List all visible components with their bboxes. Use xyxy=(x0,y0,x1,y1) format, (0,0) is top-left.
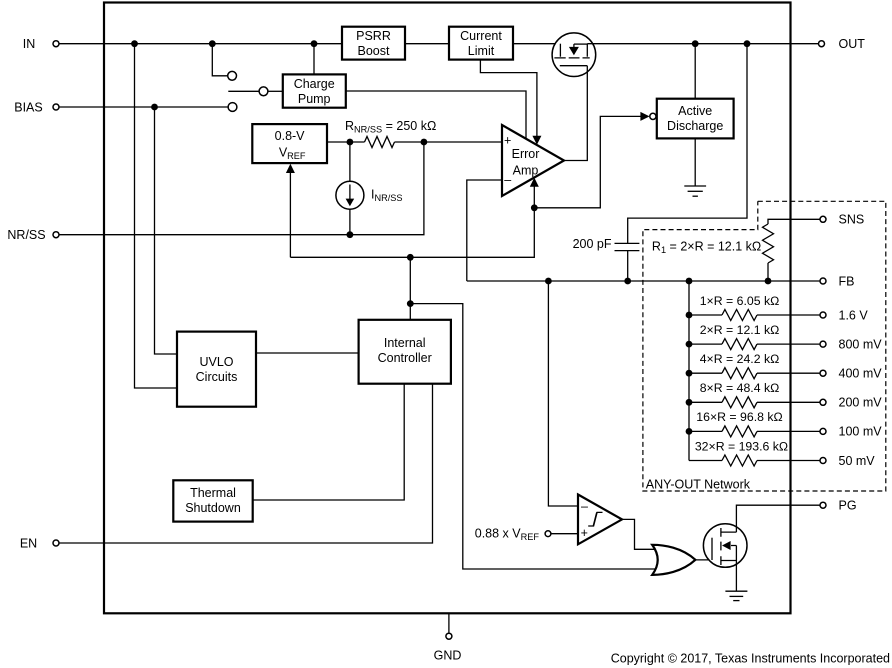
node bus tap 1.6V xyxy=(686,312,693,319)
wire internal enable net horizontal xyxy=(290,208,534,257)
wire divider bus xyxy=(688,281,690,461)
svg-text:Controller: Controller xyxy=(378,351,432,365)
pin PG xyxy=(820,499,857,513)
block Thermal Shutdown xyxy=(173,480,252,521)
switch throw from BIAS xyxy=(228,103,237,112)
svg-text:Active: Active xyxy=(678,104,712,118)
wire enable net to OR gate input xyxy=(410,304,657,569)
svg-text:400 mV: 400 mV xyxy=(839,367,883,381)
pin IN xyxy=(23,37,59,51)
pin OUT xyxy=(819,37,866,51)
dashed box ANY-OUT Network xyxy=(643,201,886,491)
pin 50 mV xyxy=(820,454,875,468)
svg-text:OUT: OUT xyxy=(839,37,866,51)
node OUT-ActiveDischarge junction xyxy=(692,40,699,47)
svg-text:NR/SS: NR/SS xyxy=(7,228,45,242)
pin 400 mV xyxy=(820,367,882,381)
block Internal Controller xyxy=(359,320,451,384)
transistor Q2 PG open-drain NMOS xyxy=(703,524,747,568)
wire error amp soft-start arrow up into bottom edge xyxy=(533,186,535,208)
svg-text:2×R = 12.1 kΩ: 2×R = 12.1 kΩ xyxy=(700,323,780,337)
node IN-chargepump junction xyxy=(311,40,318,47)
wire FB to comparator inverting input xyxy=(548,281,578,506)
capacitor C1 200 pF xyxy=(615,243,640,250)
wire OUT to 200pF capacitor xyxy=(628,44,747,244)
block Current Limit U2 xyxy=(449,27,513,60)
inverter bubble at Active Discharge xyxy=(650,113,656,119)
wire SNS to R1 xyxy=(768,219,820,224)
block Active Discharge xyxy=(657,99,734,139)
node IN-switch junction xyxy=(209,40,216,47)
wire VREF output to RNR/SS xyxy=(327,141,502,143)
node IN-UVLO junction xyxy=(131,40,138,47)
resistor 4xR xyxy=(722,368,757,379)
wire tap 800mV xyxy=(689,343,820,345)
svg-text:8×R = 48.4 kΩ: 8×R = 48.4 kΩ xyxy=(700,381,780,395)
block Charge Pump U3 xyxy=(283,74,346,107)
svg-text:Circuits: Circuits xyxy=(196,370,238,384)
MAIN-BORDER xyxy=(104,3,791,614)
node bus tap 800mV xyxy=(686,341,693,348)
svg-text:100 mV: 100 mV xyxy=(839,425,883,439)
svg-text:0.8-V: 0.8-V xyxy=(275,129,306,143)
resistor 8xR xyxy=(722,397,757,408)
wire BIAS to UVLO input xyxy=(155,107,178,354)
wire tap 50mV xyxy=(689,460,820,462)
svg-text:Shutdown: Shutdown xyxy=(185,501,241,515)
current source INR/SS xyxy=(336,181,364,209)
svg-text:4×R = 24.2 kΩ: 4×R = 24.2 kΩ xyxy=(700,352,780,366)
wire BIAS rail xyxy=(59,106,228,108)
pin SNS xyxy=(820,213,864,227)
wire IN to UVLO input xyxy=(135,44,178,388)
node VREF-INRSS junction xyxy=(347,139,354,146)
wire Active Discharge to ground xyxy=(694,138,696,186)
pin 200 mV xyxy=(820,396,882,410)
wire enable net down to controller xyxy=(409,257,411,320)
switch blade xyxy=(228,90,259,92)
svg-text:Copyright © 2017, Texas Instru: Copyright © 2017, Texas Instruments Inco… xyxy=(611,652,890,666)
svg-text:IN: IN xyxy=(23,37,36,51)
node FB-R1 junction xyxy=(765,278,772,285)
svg-text:SNS: SNS xyxy=(839,213,865,227)
svg-text:ANY-OUT Network: ANY-OUT Network xyxy=(646,478,751,492)
wire INRSS stub bottom xyxy=(349,209,351,235)
ground under PG FET xyxy=(725,591,747,600)
node error-amp bottom junction xyxy=(531,204,538,211)
wire tap 100mV xyxy=(689,430,820,432)
wire NR/SS rail xyxy=(59,142,424,235)
pin NR/SS xyxy=(7,228,59,242)
wire Internal Controller to Thermal Shutdown xyxy=(253,384,405,500)
ground under Active Discharge xyxy=(684,186,706,196)
node RNR/SS right junction xyxy=(421,139,428,146)
wire FB rail xyxy=(467,280,820,282)
svg-text:UVLO: UVLO xyxy=(199,355,233,369)
wire to active discharge input xyxy=(534,116,640,207)
pin GND xyxy=(434,614,462,663)
svg-text:PSRR: PSRR xyxy=(356,29,391,43)
gate OR1 xyxy=(652,545,695,575)
resistor 1xR xyxy=(722,310,757,321)
wire EN to internal controller xyxy=(59,384,433,543)
resistor R1 xyxy=(763,224,774,263)
op-amp U4 Error Amp xyxy=(502,125,564,196)
svg-text:Internal: Internal xyxy=(384,336,426,350)
block PSRR Boost U1 xyxy=(342,27,405,60)
svg-text:200 pF: 200 pF xyxy=(573,237,612,251)
wire VREF enable arrow up into VREF box xyxy=(289,171,291,258)
svg-text:Error: Error xyxy=(512,147,540,161)
transistor Q1 pass PMOS xyxy=(552,33,596,77)
pin 800 mV xyxy=(820,337,882,351)
svg-text:Amp: Amp xyxy=(513,163,539,177)
block 0.8-V VREF reference xyxy=(252,124,327,163)
svg-text:50 mV: 50 mV xyxy=(839,454,876,468)
wire pass FET gate to error amp output xyxy=(564,66,587,161)
resistor RNR/SS xyxy=(365,137,395,148)
pin BIAS xyxy=(14,100,59,114)
wire OR gate output to PG FET gate xyxy=(695,559,712,561)
wire 200pF to FB rail xyxy=(627,251,629,281)
wire OUT to Active Discharge top xyxy=(694,44,696,99)
wire error amp inverting input sense xyxy=(467,180,502,281)
svg-text:Current: Current xyxy=(460,29,502,43)
pin 1.6 V xyxy=(820,308,868,322)
wire tap 1.6V xyxy=(689,314,820,316)
node FB-200pF junction xyxy=(624,278,631,285)
wire IN rail xyxy=(59,43,342,45)
svg-text:EN: EN xyxy=(20,536,37,550)
arrowhead active discharge input xyxy=(640,112,649,121)
comparator U5 power-good xyxy=(578,495,622,545)
wire IN to Charge Pump top xyxy=(313,44,315,75)
resistor 32xR xyxy=(722,455,757,466)
wire UVLO to Internal Controller xyxy=(256,352,359,354)
svg-text:200 mV: 200 mV xyxy=(839,396,883,410)
svg-text:1×R = 6.05 kΩ: 1×R = 6.05 kΩ xyxy=(700,294,780,308)
wire INRSS stub top xyxy=(349,142,351,181)
node enable-IC junction xyxy=(407,254,414,261)
wire PG FET drain to PG pin xyxy=(736,505,819,532)
pin 0.88xVREF reference input xyxy=(545,531,551,537)
pin 100 mV xyxy=(820,425,882,439)
node bus tap 400mV xyxy=(686,370,693,377)
svg-text:Boost: Boost xyxy=(358,44,390,58)
wire Charge Pump to error amp top edge xyxy=(346,91,526,139)
wire tap 400mV xyxy=(689,372,820,374)
wire 0.88xVREF to comparator xyxy=(551,533,578,535)
svg-text:1.6 V: 1.6 V xyxy=(839,308,869,322)
node enable-ORgate junction xyxy=(407,300,414,307)
wire comparator output to OR gate xyxy=(622,519,658,549)
wire Current Limit to error amp top input (with arrow) xyxy=(480,60,537,137)
svg-text:Pump: Pump xyxy=(298,92,331,106)
wire PSRR Boost to Current Limit xyxy=(405,43,449,45)
svg-text:–: – xyxy=(581,500,588,514)
svg-text:+: + xyxy=(504,134,511,148)
resistor 16xR xyxy=(722,426,757,437)
svg-text:+: + xyxy=(581,526,588,540)
svg-text:GND: GND xyxy=(434,649,462,663)
pin FB xyxy=(820,274,854,288)
svg-text:–: – xyxy=(504,173,511,187)
wire Current Limit to pass FET xyxy=(513,43,560,45)
pin EN xyxy=(20,536,59,550)
svg-text:Charge: Charge xyxy=(294,77,335,91)
wire pass FET drain to OUT xyxy=(587,43,818,45)
node bus tap 100mV xyxy=(686,428,693,435)
wire PG FET source to ground xyxy=(735,561,737,592)
svg-text:32×R = 193.6 kΩ: 32×R = 193.6 kΩ xyxy=(695,439,788,453)
wire tap 200mV xyxy=(689,401,820,403)
block UVLO Circuits xyxy=(177,332,256,407)
svg-text:Discharge: Discharge xyxy=(667,119,723,133)
svg-text:BIAS: BIAS xyxy=(14,100,43,114)
node NR/SS-current-source junction xyxy=(347,231,354,238)
svg-text:PG: PG xyxy=(839,499,857,513)
wire switch pole to Charge Pump xyxy=(268,90,283,92)
node bus tap 200mV xyxy=(686,399,693,406)
node FB-comparator junction xyxy=(545,278,552,285)
svg-text:16×R = 96.8 kΩ: 16×R = 96.8 kΩ xyxy=(696,410,782,424)
svg-text:Limit: Limit xyxy=(468,44,495,58)
node OUT-200pF junction xyxy=(744,40,751,47)
switch pole xyxy=(259,87,268,96)
svg-text:R1 = 2×R = 12.1 kΩ: R1 = 2×R = 12.1 kΩ xyxy=(652,240,761,256)
switch throw from IN xyxy=(212,44,227,76)
svg-text:800 mV: 800 mV xyxy=(839,337,883,351)
svg-text:FB: FB xyxy=(839,274,855,288)
wire R1 to FB rail xyxy=(767,263,769,281)
node FB-divider junction xyxy=(686,278,693,285)
resistor 2xR xyxy=(722,339,757,350)
node BIAS-UVLO junction xyxy=(151,104,158,111)
svg-text:Thermal: Thermal xyxy=(190,486,236,500)
